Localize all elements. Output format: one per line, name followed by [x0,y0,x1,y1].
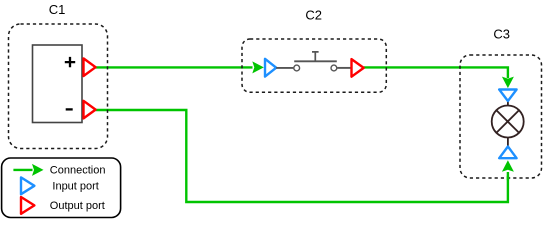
legend output port symbol [21,197,34,214]
legend box [2,158,121,218]
switch S1 actuator [312,52,319,61]
wire switch lead left [276,67,293,69]
wire C1.minus to C3.bottom [96,110,514,202]
legend input port symbol [21,177,34,194]
wire switch lead right [337,67,351,69]
wire C1.minus to C3.bottom overdraw at box edge [507,176,509,180]
input port C2.in [265,59,276,77]
svg-text:Input port: Input port [52,180,98,192]
input port C3.top [499,90,516,102]
label + [65,57,75,67]
battery block U1 [33,45,83,123]
svg-text:C3: C3 [493,27,510,42]
component box C2 [242,39,386,92]
input port C3.bottom [499,147,516,159]
switch S1 bar [294,60,337,62]
wire C1.plus to C2.in [96,61,264,73]
wire lamp stub bottom [507,137,509,147]
svg-text:C2: C2 [305,8,322,23]
switch S1 contact right [331,65,337,71]
lamp L1 [492,106,524,138]
legend connection arrow [13,164,43,176]
label - [66,108,73,110]
wire C2.out to C3.top [364,67,514,88]
switch S1 contact left [294,65,300,71]
component box C3 [460,55,542,178]
component box C1 [9,24,108,149]
output port C2.out [352,59,364,77]
svg-text:Output port: Output port [50,200,105,212]
wire lamp stub top [507,101,509,106]
output port C1.plus [84,58,96,76]
output port C1.minus [84,101,96,119]
svg-text:Connection: Connection [50,165,106,177]
svg-text:C1: C1 [49,2,66,17]
